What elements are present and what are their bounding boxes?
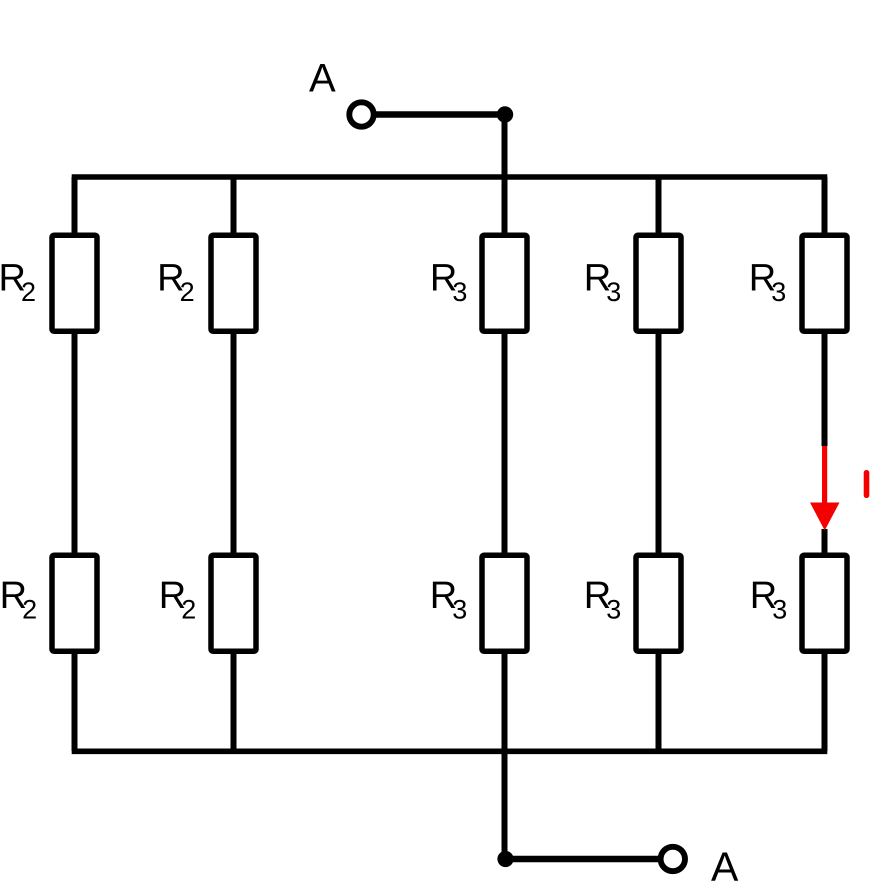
svg-text:3: 3 (771, 277, 786, 307)
svg-text:3: 3 (772, 595, 787, 625)
svg-text:3: 3 (606, 277, 621, 307)
svg-text:A: A (711, 844, 739, 890)
svg-text:2: 2 (21, 277, 36, 307)
svg-text:3: 3 (452, 277, 467, 307)
svg-text:3: 3 (606, 595, 621, 625)
svg-text:2: 2 (181, 595, 196, 625)
svg-text:2: 2 (180, 277, 195, 307)
svg-text:3: 3 (452, 595, 467, 625)
svg-text:A: A (309, 57, 336, 101)
svg-text:2: 2 (22, 595, 37, 625)
